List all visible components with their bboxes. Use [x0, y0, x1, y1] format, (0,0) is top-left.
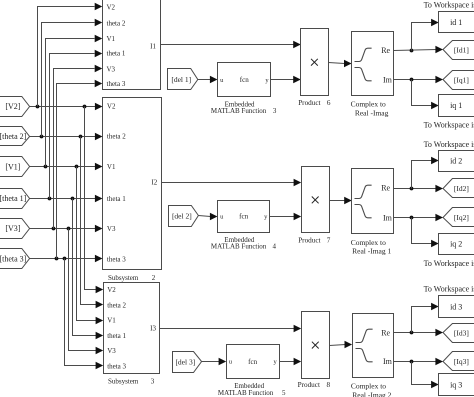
- wire [del 2] to Embedded MATLAB Function 4 input u: [199, 213, 218, 220]
- svg-text:theta 2: theta 2: [107, 19, 126, 27]
- wire I1 from Subsystem to Product 6: [161, 41, 301, 48]
- svg-text:V2: V2: [107, 286, 116, 294]
- wire Im branch to To Workspace iq 1: [412, 80, 439, 110]
- wire [V3] down to Subsystem 3 port V3: [69, 229, 104, 355]
- wire [V2] down to Subsystem 3 port V2: [85, 107, 104, 294]
- block To Workspace iq 1: [439, 95, 474, 117]
- svg-text:[Iq2]: [Iq2]: [454, 213, 469, 222]
- svg-text:[del 3]: [del 3]: [175, 358, 195, 367]
- svg-text:[theta 2]: [theta 2]: [0, 132, 27, 141]
- svg-text:Product: Product: [298, 381, 320, 389]
- svg-text:5: 5: [282, 389, 286, 397]
- wire Im branch to To Workspace iq 3: [412, 362, 439, 389]
- svg-text:theta 1: theta 1: [107, 50, 126, 58]
- wire [V3] to Subsystem 2 port V3: [30, 225, 103, 232]
- block To Workspace id 1: [439, 12, 474, 33]
- label Complex to Real -Imag: [351, 100, 389, 118]
- svg-text:id 1: id 1: [450, 18, 462, 27]
- svg-text:MATLAB Function: MATLAB Function: [218, 389, 274, 397]
- wire Im branch to To Workspace iq 2: [412, 218, 439, 248]
- svg-text:7: 7: [327, 236, 331, 244]
- svg-text:[V3]: [V3]: [5, 224, 20, 233]
- junction [theta 2] branch to Subsystem 1: [40, 135, 44, 139]
- svg-text:I1: I1: [150, 42, 156, 50]
- svg-text:theta 2: theta 2: [107, 301, 126, 309]
- wire [del 1] to Embedded MATLAB Function 3 input u: [198, 76, 218, 83]
- block Complex to Real -Imag (Re Im outputs): [352, 32, 394, 96]
- From tag [theta 3]: [0, 249, 30, 269]
- svg-text:theta 3: theta 3: [107, 255, 126, 263]
- svg-text:Im: Im: [383, 213, 393, 222]
- svg-text:3: 3: [151, 377, 155, 385]
- junction Re branch to id 1: [410, 49, 414, 53]
- svg-text:[Iq3]: [Iq3]: [454, 357, 469, 366]
- svg-text:[del 2]: [del 2]: [172, 212, 192, 221]
- label Complex to Real -Imag 1: [351, 238, 392, 256]
- svg-text:theta 1: theta 1: [107, 332, 126, 340]
- wire Product 7 to Complex to Real-Imag block: [330, 197, 352, 204]
- svg-text:fcn: fcn: [239, 213, 248, 221]
- svg-text:theta 1: theta 1: [107, 195, 126, 203]
- subsystem block Subsystem 1 (cropped at top) with input port labels and output I1: [103, 0, 161, 90]
- wire [V1] down to Subsystem 3 port V1: [77, 167, 104, 325]
- svg-text:[del 1]: [del 1]: [171, 75, 191, 84]
- block To Workspace id 2: [439, 151, 474, 172]
- wire I3 from Subsystem to Product 8: [160, 325, 302, 332]
- wire Product 6 to Complex to Real-Imag block: [329, 60, 352, 67]
- junction [V2] branch to Subsystem 1: [36, 105, 40, 109]
- svg-text:V1: V1: [107, 35, 116, 43]
- svg-text:V1: V1: [107, 163, 116, 171]
- svg-text:V3: V3: [107, 347, 116, 355]
- svg-text:[V1]: [V1]: [5, 162, 20, 171]
- label To Workspace (above id 3): [424, 285, 474, 294]
- svg-text:To Workspace is: To Workspace is: [424, 259, 474, 268]
- wire [V2] to Subsystem 2 port V2: [30, 103, 103, 110]
- block Embedded MATLAB Function 3 (u fcn y): [218, 63, 271, 97]
- label Subsystem 2: [108, 274, 156, 282]
- svg-text:3: 3: [273, 107, 277, 115]
- block Embedded MATLAB Function 4 (u fcn y): [218, 201, 270, 233]
- label Product 7: [298, 236, 331, 244]
- block Complex to Real -Imag 1 (Re Im outputs): [352, 169, 394, 234]
- junction [V1] branch to Subsystem 1: [44, 165, 48, 169]
- svg-text:I2: I2: [151, 179, 157, 187]
- Goto tag [Iq3]: [443, 352, 474, 371]
- block Product 7 (multiply): [302, 167, 330, 233]
- svg-text:To Workspace is: To Workspace is: [424, 120, 474, 129]
- svg-text:[theta 3]: [theta 3]: [0, 255, 27, 264]
- svg-text:Re: Re: [381, 184, 390, 193]
- svg-text:6: 6: [327, 99, 331, 107]
- svg-text:theta 2: theta 2: [107, 133, 126, 141]
- svg-text:Real -Imag: Real -Imag: [355, 108, 389, 117]
- wire Im to [Iq3]: [394, 358, 444, 365]
- svg-text:Re: Re: [381, 329, 390, 338]
- junction [V2] branch to Subsystem 3: [83, 105, 87, 109]
- svg-text:[theta 1]: [theta 1]: [0, 194, 27, 203]
- svg-text:id 2: id 2: [450, 157, 462, 166]
- svg-text:Complex to: Complex to: [351, 100, 386, 109]
- svg-text:[V2]: [V2]: [5, 102, 20, 111]
- From tag [del 3]: [173, 352, 202, 373]
- svg-text:To Workspace is: To Workspace is: [424, 285, 474, 294]
- svg-text:[Id3]: [Id3]: [454, 329, 469, 338]
- svg-text:Complex to: Complex to: [351, 382, 386, 391]
- wire [theta 1] up to Subsystem 1 port theta 1: [50, 50, 103, 199]
- From tag [del 2]: [169, 206, 199, 227]
- wire Im to [Iq1]: [394, 76, 444, 83]
- svg-text:iq 3: iq 3: [450, 380, 462, 389]
- subsystem block Subsystem 2 with input port labels and output I2: [103, 98, 162, 270]
- wire [V1] to Subsystem 2 port V1: [30, 163, 103, 170]
- block To Workspace iq 2: [439, 234, 474, 255]
- svg-text:2: 2: [152, 274, 156, 282]
- junction [theta 2] branch to Subsystem 3: [79, 135, 83, 139]
- wire [del 3] to Embedded MATLAB Function 5 input u: [202, 358, 227, 365]
- junction [theta 3] branch to Subsystem 1: [55, 257, 59, 261]
- wire [theta 3] down to Subsystem 3 port theta 3: [65, 259, 104, 370]
- junction Im branch to iq 3: [410, 360, 414, 364]
- wire [theta 1] to Subsystem 2 port theta 1: [30, 195, 103, 202]
- wire Re to [Id3]: [394, 329, 444, 336]
- svg-text:Real -Imag 1: Real -Imag 1: [352, 247, 391, 256]
- svg-text:Product: Product: [298, 236, 320, 244]
- label Subsystem 3: [108, 377, 155, 385]
- svg-text:[Iq1]: [Iq1]: [454, 75, 469, 84]
- label Complex to Real -Imag 2: [351, 382, 392, 397]
- svg-text:theta 3: theta 3: [107, 362, 126, 370]
- wire [V1] up to Subsystem 1 port V1: [46, 35, 103, 167]
- svg-text:Real -Imag 2: Real -Imag 2: [352, 390, 391, 397]
- label Product 6: [298, 99, 331, 107]
- Goto tag [Id1]: [443, 41, 474, 60]
- svg-text:Product: Product: [298, 99, 320, 107]
- junction [theta 1] branch to Subsystem 3: [71, 197, 75, 201]
- svg-text:4: 4: [272, 243, 276, 251]
- block Product 8 (multiply): [302, 312, 330, 379]
- junction Re branch to id 2: [410, 187, 414, 191]
- wire [theta 3] up to Subsystem 1 port theta 3: [57, 80, 103, 259]
- Goto tag [Iq1]: [443, 71, 474, 90]
- svg-text:MATLAB Function: MATLAB Function: [211, 243, 267, 251]
- junction [V1] branch to Subsystem 3: [75, 165, 79, 169]
- label Product 8: [298, 381, 331, 389]
- svg-text:theta 3: theta 3: [107, 80, 126, 88]
- wire Re to [Id1]: [394, 46, 444, 53]
- wire [V3] up to Subsystem 1 port V3: [54, 65, 103, 229]
- label To Workspace (below iq 2): [424, 259, 474, 268]
- block Product 6 (multiply): [301, 29, 329, 96]
- wire y output to Product 6: [271, 76, 301, 83]
- label Embedded MATLAB Function 3: [211, 100, 277, 115]
- block Embedded MATLAB Function 5 (u fcn y): [227, 345, 280, 379]
- label Embedded MATLAB Function 4: [211, 236, 277, 251]
- Goto tag [Id3]: [443, 324, 474, 343]
- svg-text:iq 1: iq 1: [450, 101, 462, 110]
- svg-text:V3: V3: [107, 65, 116, 73]
- svg-text:To Workspace is: To Workspace is: [424, 1, 474, 10]
- From tag [V3]: [0, 219, 30, 239]
- block Complex to Real -Imag 2 (Re Im outputs): [353, 314, 394, 378]
- From tag [theta 2]: [0, 127, 30, 146]
- svg-text:I3: I3: [150, 325, 156, 333]
- junction Re branch to id 3: [410, 331, 414, 335]
- wire Re branch to To Workspace id 3: [412, 303, 439, 333]
- wire I2 from Subsystem to Product 7: [162, 179, 302, 186]
- wire Re branch to To Workspace id 2: [412, 157, 439, 189]
- wire [theta 1] down to Subsystem 3 port theta 1: [73, 199, 104, 340]
- junction [theta 1] branch to Subsystem 1: [48, 197, 52, 201]
- svg-text:Im: Im: [383, 76, 393, 85]
- wire y output to Product 8: [280, 358, 302, 365]
- wire Im to [Iq2]: [394, 214, 444, 221]
- label Embedded MATLAB Function 5: [218, 382, 286, 397]
- wire [theta 2] up to Subsystem 1 port theta 2: [42, 19, 103, 137]
- svg-text:Subsystem: Subsystem: [108, 274, 139, 282]
- svg-text:To Workspace is: To Workspace is: [424, 140, 474, 149]
- From tag [V1]: [0, 157, 30, 177]
- junction [V3] branch to Subsystem 1: [52, 227, 56, 231]
- svg-text:fcn: fcn: [248, 358, 257, 366]
- label To Workspace (above id 1): [424, 1, 474, 10]
- junction [V3] branch to Subsystem 3: [67, 227, 71, 231]
- From tag [V2]: [0, 97, 30, 117]
- junction Im branch to iq 2: [410, 216, 414, 220]
- wire [theta 3] to Subsystem 2 port theta 3: [30, 255, 103, 262]
- From tag [theta 1]: [0, 189, 30, 209]
- svg-text:iq 2: iq 2: [450, 240, 462, 249]
- wire [V2] up to Subsystem 1 port V2: [38, 3, 103, 107]
- svg-text:V1: V1: [107, 317, 116, 325]
- wire Re to [Id2]: [394, 185, 444, 192]
- svg-text:Subsystem: Subsystem: [108, 377, 139, 385]
- junction [theta 3] branch to Subsystem 3: [63, 257, 67, 261]
- wire [theta 2] down to Subsystem 3 port theta 2: [81, 137, 104, 309]
- svg-text:V3: V3: [107, 225, 116, 233]
- block To Workspace iq 3: [439, 374, 474, 396]
- svg-text:fcn: fcn: [240, 76, 249, 84]
- svg-text:Im: Im: [383, 357, 393, 366]
- wire Product 8 to Complex to Real-Imag block: [330, 341, 353, 348]
- junction Im branch to iq 1: [410, 78, 414, 82]
- Goto tag [Iq2]: [443, 208, 474, 227]
- Goto tag [Id2]: [443, 179, 474, 198]
- svg-text:8: 8: [327, 381, 331, 389]
- svg-text:MATLAB Function: MATLAB Function: [211, 107, 267, 115]
- wire Re branch to To Workspace id 1: [412, 19, 439, 51]
- svg-text:V2: V2: [107, 3, 116, 11]
- svg-text:[Id2]: [Id2]: [454, 184, 469, 193]
- wire y output to Product 7: [270, 213, 302, 220]
- subsystem block Subsystem 3 with input port labels and output I3: [104, 283, 160, 374]
- svg-text:Re: Re: [381, 46, 390, 55]
- svg-text:id 3: id 3: [450, 302, 462, 311]
- wire [theta 2] to Subsystem 2 port theta 2: [30, 133, 103, 140]
- block To Workspace id 3: [439, 296, 474, 318]
- label To Workspace (below iq 1): [424, 120, 474, 129]
- svg-text:V2: V2: [107, 103, 116, 111]
- svg-text:[Id1]: [Id1]: [454, 46, 469, 55]
- label To Workspace (above id 2): [424, 140, 474, 149]
- From tag [del 1]: [168, 69, 198, 90]
